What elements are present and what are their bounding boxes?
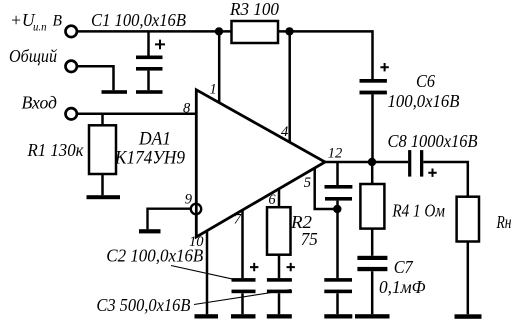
svg-text:С1 100,0х16В: С1 100,0х16В xyxy=(91,10,186,30)
svg-text:С8 1000х16В: С8 1000х16В xyxy=(388,131,478,151)
svg-text:Вход: Вход xyxy=(22,93,58,113)
svg-text:К174УН9: К174УН9 xyxy=(114,148,185,169)
svg-text:R4 1 Ом: R4 1 Ом xyxy=(392,201,445,221)
svg-text:С3 500,0х16В: С3 500,0х16В xyxy=(96,295,190,315)
svg-text:9: 9 xyxy=(185,192,193,208)
svg-text:6: 6 xyxy=(268,192,276,208)
svg-text:R3 100: R3 100 xyxy=(229,0,279,19)
svg-text:В: В xyxy=(53,13,63,30)
svg-text:4: 4 xyxy=(281,124,288,140)
svg-text:0,1мФ: 0,1мФ xyxy=(379,277,426,297)
svg-text:и.п: и.п xyxy=(33,22,47,34)
svg-text:75: 75 xyxy=(301,229,318,249)
svg-text:С6: С6 xyxy=(416,71,435,91)
svg-text:Rн: Rн xyxy=(496,212,512,232)
svg-text:+U: +U xyxy=(10,10,36,30)
svg-text:С7: С7 xyxy=(394,257,414,277)
svg-text:DA1: DA1 xyxy=(138,129,171,150)
svg-text:R1 130к: R1 130к xyxy=(27,140,85,160)
svg-text:5: 5 xyxy=(304,175,311,191)
svg-text:1: 1 xyxy=(210,82,217,98)
svg-text:Общий: Общий xyxy=(9,46,57,66)
svg-text:12: 12 xyxy=(328,146,343,162)
svg-text:10: 10 xyxy=(189,234,204,250)
svg-text:7: 7 xyxy=(234,212,242,228)
svg-text:8: 8 xyxy=(183,101,191,117)
svg-text:100,0х16В: 100,0х16В xyxy=(388,91,460,111)
